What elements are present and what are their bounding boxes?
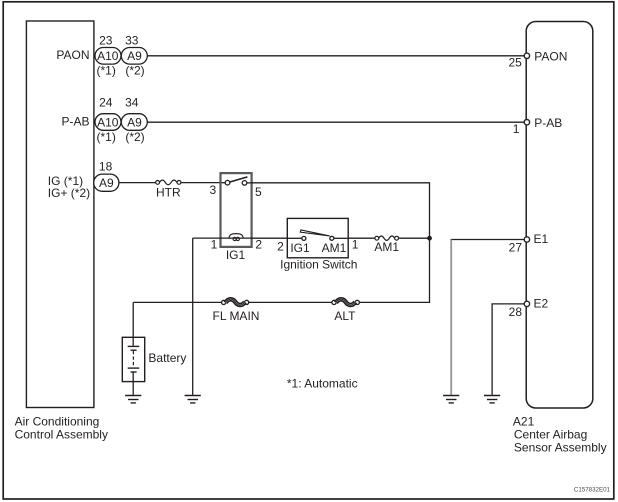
- svg-text:1: 1: [211, 237, 218, 251]
- svg-text:Ignition Switch: Ignition Switch: [280, 258, 357, 272]
- svg-text:33: 33: [125, 33, 139, 47]
- svg-text:1: 1: [513, 122, 520, 136]
- ignition switch: [277, 218, 359, 271]
- svg-text:ALT: ALT: [334, 309, 356, 323]
- wire relay pin 1 to ground: [193, 237, 221, 239]
- wire E2 to ground: [492, 304, 524, 395]
- pin E2 (sensor, 28): [509, 296, 549, 319]
- wire P-AB row: [147, 121, 524, 123]
- svg-text:23: 23: [99, 33, 113, 47]
- wire relay pin 5 to junction: [251, 183, 430, 238]
- svg-text:PAON: PAON: [56, 48, 89, 62]
- svg-text:FL MAIN: FL MAIN: [213, 309, 260, 323]
- battery: [122, 337, 186, 381]
- relay switch arm: [230, 177, 248, 182]
- svg-text:Battery: Battery: [148, 351, 186, 365]
- svg-text:Air Conditioning: Air Conditioning: [15, 415, 100, 429]
- svg-text:5: 5: [255, 185, 262, 199]
- svg-text:A9: A9: [127, 49, 142, 63]
- wire PAON row: [147, 55, 524, 57]
- junction node dot: [427, 236, 432, 241]
- ground (relay coil): [185, 396, 201, 403]
- wire ALT to FL MAIN: [249, 301, 332, 303]
- svg-text:P-AB: P-AB: [534, 116, 562, 130]
- wire junction down to ALT line: [359, 238, 429, 302]
- wire ignition switch to AM1 fuse: [348, 237, 375, 239]
- svg-text:2: 2: [255, 237, 262, 251]
- pin PAON (sensor, 25): [508, 49, 567, 69]
- ignition switch IG1 contact: [302, 236, 306, 240]
- fuse HTR: [156, 180, 181, 199]
- svg-text:A10: A10: [97, 115, 119, 129]
- svg-text:2: 2: [277, 240, 284, 254]
- ground (battery): [125, 396, 141, 403]
- svg-text:A21: A21: [513, 414, 535, 428]
- fuse AM1: [374, 236, 399, 254]
- connector pin A10 (P-AB): [95, 114, 121, 131]
- svg-text:(*1): (*1): [97, 130, 116, 144]
- svg-text:AM1: AM1: [322, 241, 347, 255]
- svg-text:28: 28: [509, 305, 523, 319]
- svg-text:Control Assembly: Control Assembly: [15, 428, 108, 442]
- wire A9 to HTR fuse: [119, 182, 156, 184]
- connector pin A9 (IG): [94, 174, 119, 191]
- svg-text:C157832E01: C157832E01: [574, 486, 611, 493]
- svg-text:1: 1: [352, 238, 359, 252]
- ignition switch arm: [300, 230, 329, 236]
- svg-text:PAON: PAON: [534, 49, 567, 63]
- svg-text:(*2): (*2): [125, 63, 144, 77]
- wire AM1 fuse to junction: [399, 237, 430, 239]
- svg-text:24: 24: [99, 96, 113, 110]
- svg-text:AM1: AM1: [374, 240, 399, 254]
- wire relay pin 2 to ignition switch: [251, 237, 288, 239]
- svg-text:3: 3: [209, 183, 216, 197]
- ignition switch AM1 contact: [330, 236, 334, 240]
- svg-text:IG+ (*2): IG+ (*2): [48, 186, 90, 200]
- svg-text:25: 25: [508, 56, 522, 70]
- svg-text:Center Airbag: Center Airbag: [514, 427, 587, 441]
- wire battery negative to ground: [132, 372, 134, 395]
- pin P-AB (sensor, 1): [513, 116, 563, 136]
- connector pin A9 (P-AB): [121, 114, 147, 131]
- svg-text:27: 27: [509, 241, 523, 255]
- wire battery to FL MAIN: [133, 301, 221, 303]
- svg-text:E2: E2: [534, 296, 549, 310]
- svg-text:*1: Automatic: *1: Automatic: [287, 376, 358, 390]
- svg-text:A9: A9: [99, 176, 114, 190]
- svg-text:A9: A9: [127, 115, 142, 129]
- wire battery positive: [132, 302, 134, 345]
- svg-text:IG1: IG1: [226, 248, 246, 262]
- svg-text:IG1: IG1: [290, 241, 310, 255]
- relay coil: [221, 237, 251, 239]
- svg-text:(*1): (*1): [97, 63, 116, 77]
- relay contact pin 5: [242, 181, 247, 186]
- ground (E2): [484, 396, 500, 403]
- svg-text:18: 18: [99, 159, 113, 173]
- wire HTR to relay pin 3: [181, 182, 226, 184]
- ground (E1 shield): [443, 396, 459, 403]
- svg-text:Sensor Assembly: Sensor Assembly: [514, 440, 607, 454]
- relay IG1: [209, 173, 262, 262]
- svg-text:E1: E1: [534, 232, 549, 246]
- Air Conditioning Control Assembly box: [15, 21, 108, 442]
- svg-text:HTR: HTR: [156, 185, 181, 199]
- svg-text:34: 34: [125, 96, 139, 110]
- fusible link ALT: [332, 299, 360, 323]
- pin E1 (sensor, 27): [509, 232, 549, 255]
- wire E1 to shield drain: [451, 239, 525, 241]
- shielded ground wire (gray): [450, 240, 452, 395]
- svg-text:A10: A10: [97, 49, 119, 63]
- svg-text:(*2): (*2): [125, 130, 144, 144]
- connector pin A9 (PAON): [121, 48, 147, 65]
- fusible link FL MAIN: [213, 299, 260, 323]
- Center Airbag Sensor Assembly box: [513, 22, 607, 455]
- relay contact pin 3: [225, 180, 230, 185]
- svg-text:P-AB: P-AB: [61, 114, 89, 128]
- connector pin A10 (PAON): [95, 48, 121, 65]
